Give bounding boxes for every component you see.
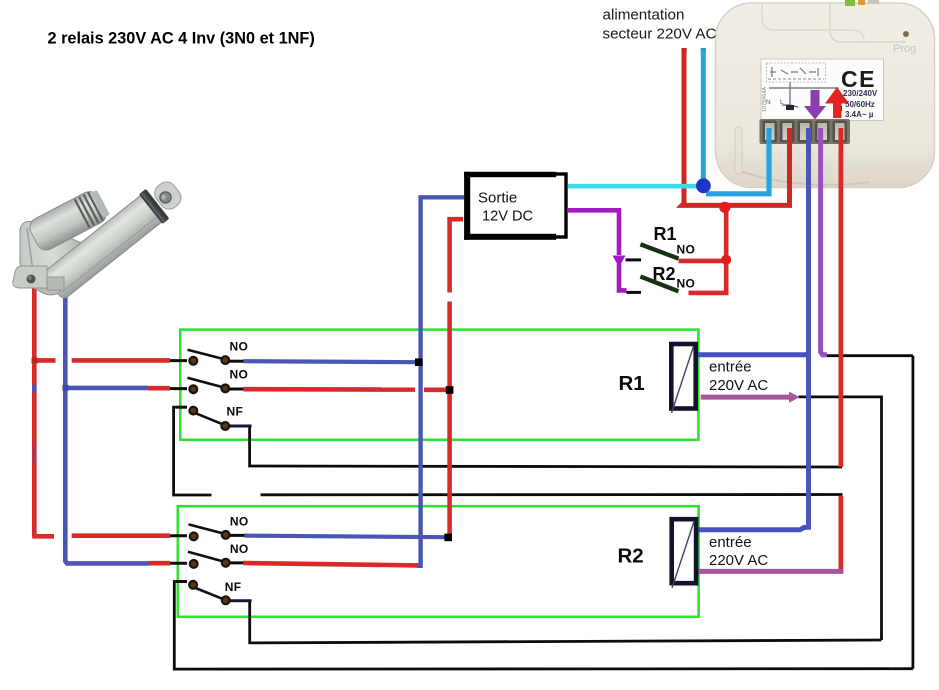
- wire black stub R1 NO1 contact: [229, 360, 244, 363]
- svg-text:N: N: [766, 99, 771, 106]
- node R1 NF common: [189, 407, 197, 415]
- wire black stub R1 NF common: [176, 406, 187, 409]
- node R1 common2: [189, 385, 197, 393]
- terminal block: [760, 119, 851, 144]
- wire Sortie purple output: [568, 210, 627, 290]
- wire red tail R2 row2: [149, 561, 171, 566]
- box Sortie 12V DC: [464, 172, 566, 240]
- arrowhead purple at R1 branch: [613, 256, 626, 268]
- actuator housing block: [20, 221, 88, 292]
- device side slot: [735, 127, 742, 174]
- blue paint mark on red vertical: [32, 385, 37, 393]
- wire R2 NF contact black loop bottom: [250, 601, 882, 643]
- junction red on red vertical R1 row1: [32, 358, 38, 364]
- device LED: [903, 31, 909, 37]
- wire actuator blue vertical feed: [65, 282, 148, 563]
- wire R2 entree blue: [698, 528, 806, 530]
- svg-text:alimentation: alimentation: [603, 7, 685, 24]
- wire black stub R2 NO2 contact: [229, 561, 246, 564]
- svg-text:3.4A~ µ: 3.4A~ µ: [845, 110, 874, 119]
- wire black stub R1 common 1: [168, 359, 187, 362]
- wire R1 NF contact black loop to right: [250, 426, 842, 467]
- actuator small foot right: [47, 277, 64, 290]
- actuator main tube: [42, 193, 165, 300]
- junction red dot main: [719, 202, 730, 213]
- junction square R1 NO1 to blue vertical: [415, 358, 423, 366]
- svg-text:Sortie: Sortie: [478, 190, 517, 207]
- svg-text:entrée: entrée: [709, 534, 752, 551]
- wire black stub R1 NO2 contact: [229, 388, 244, 391]
- wire R1 NF common black bracket: [174, 407, 212, 495]
- wire red R1 contact to branch: [679, 259, 727, 264]
- wire Sortie plus red down the middle upper: [450, 219, 463, 292]
- wire black stub R2 NF common: [176, 580, 187, 583]
- actuator dark collar: [139, 189, 170, 224]
- node R1 NO1 contact: [221, 356, 229, 364]
- svg-text:220V AC: 220V AC: [709, 552, 768, 569]
- svg-text:12V DC: 12V DC: [482, 209, 533, 225]
- PHOTO linear actuator left: [13, 174, 188, 302]
- label lower schematic: [769, 82, 838, 108]
- svg-text:Prog: Prog: [893, 43, 916, 55]
- node R1 common1: [189, 357, 197, 365]
- wire black stub R1 coil switch: [626, 258, 642, 261]
- wire R1 NF common black line right segment: [261, 493, 843, 496]
- lever R1 switch NF: [196, 413, 223, 424]
- wire R1 NO2 red output right part: [424, 387, 447, 392]
- wire R2 entree mauve: [698, 569, 843, 574]
- junction blue on blue vertical R1 row2: [63, 385, 69, 391]
- svg-text:entrée: entrée: [709, 359, 752, 376]
- wire red feed into R1 row1: [72, 358, 170, 363]
- terminal circles R1: [189, 356, 229, 604]
- node R2 NF contact: [222, 596, 230, 604]
- wire Sortie minus blue down the middle: [418, 197, 465, 566]
- wire red branch down to relay contacts: [689, 207, 727, 293]
- svg-text:220V AC: 220V AC: [709, 377, 768, 394]
- svg-text:NO: NO: [230, 542, 249, 556]
- wire R1 entree blue: [698, 352, 807, 357]
- junction square R2 NO1 to red vertical: [444, 534, 452, 542]
- relay coil U2 in box R2: [672, 519, 696, 588]
- wire terminal 5 red vertical upper: [839, 128, 844, 467]
- actuator mounting foot left: [13, 266, 47, 288]
- lever R2 switch NO2: [188, 552, 223, 562]
- svg-text:NO: NO: [677, 277, 696, 291]
- wire cap red alim: [682, 48, 687, 53]
- actuator base plate: [26, 274, 61, 295]
- wire navy stub R2 NF contact: [229, 599, 252, 602]
- wire right outer black vertical: [912, 356, 915, 669]
- node R2 common2: [190, 560, 198, 568]
- lever R1 switch NO1: [188, 350, 223, 359]
- node R1 NF contact: [221, 422, 229, 430]
- wire navy stub R1 NF contact: [229, 425, 252, 428]
- junction blue dot: [696, 178, 711, 193]
- lever R1 switch NO2: [188, 378, 223, 387]
- wire R2 NO2 red output: [243, 563, 419, 565]
- wire R1 entree black link down: [799, 397, 882, 640]
- junction red dot lower: [721, 255, 731, 265]
- wire blue feed into R1 row2: [65, 386, 147, 391]
- svg-text:R1: R1: [619, 372, 645, 395]
- svg-text:secteur 220V AC: secteur 220V AC: [603, 26, 717, 43]
- node R2 common1: [190, 533, 198, 541]
- label mini schematic top: [767, 63, 826, 82]
- wire R2 NF common black outer loop: [174, 582, 913, 670]
- wire red stub R1 row1 left: [32, 358, 55, 363]
- svg-text:NO: NO: [230, 340, 249, 354]
- svg-text:NF: NF: [227, 405, 244, 419]
- svg-text:L: L: [780, 99, 784, 106]
- wire terminal 4 purple vertical: [821, 128, 827, 355]
- lever R2 switch NO1: [189, 524, 224, 533]
- faint blue mark on red vertical lower: [32, 446, 37, 462]
- node R2 NO2 contact: [222, 559, 230, 567]
- arrowhead mauve R1 entree: [789, 392, 800, 403]
- wire black stub R2 NO1 contact: [229, 534, 246, 537]
- wire black stub R1 common 2: [168, 387, 187, 390]
- wire cyan Sortie to junction: [568, 184, 700, 189]
- svg-text:NF: NF: [225, 580, 242, 594]
- node R1 NO2 contact: [221, 385, 229, 393]
- svg-text:R2: R2: [653, 264, 676, 284]
- relay coil U1 in box R1: [671, 344, 695, 413]
- wire red tail R1 row2: [148, 386, 170, 391]
- wire R1 entree mauve with arrow: [701, 395, 791, 400]
- wire black stub R2 common 2: [168, 562, 187, 565]
- node R2 green enclosure box: [178, 506, 699, 617]
- device molded grooves: [830, 3, 906, 42]
- wire red feed into R2 row1: [72, 533, 170, 538]
- wire azure from terminal 1: [706, 128, 769, 194]
- svg-text:50/60Hz: 50/60Hz: [845, 100, 875, 109]
- wire black stub R2 common 1: [168, 534, 187, 537]
- wire R1 NO2 red output left part: [243, 387, 415, 392]
- svg-text:NO: NO: [677, 243, 696, 257]
- svg-text:2 relais 230V AC 4 Inv (3N0 et: 2 relais 230V AC 4 Inv (3N0 et 1NF): [48, 30, 315, 48]
- wire actuator red vertical feed: [32, 283, 54, 536]
- device connector bits at top: [845, 0, 855, 6]
- actuator motor cylinder: [26, 188, 109, 253]
- actuator rod clevis: [151, 178, 185, 213]
- wire terminal 5 red vertical lower: [839, 496, 844, 574]
- wire cap azure alim: [701, 48, 706, 53]
- wire alimentation azure vertical: [701, 49, 706, 186]
- junction square R1 NO2 to red vertical: [446, 386, 454, 394]
- wire Sortie plus red down the middle lower: [447, 302, 452, 538]
- svg-text:230/240V: 230/240V: [843, 89, 878, 98]
- lever R2 switch NF: [196, 588, 223, 599]
- wire alimentation red vertical: [682, 49, 790, 206]
- wire R2 NO1 blue output: [245, 536, 446, 538]
- svg-text:R1: R1: [654, 224, 677, 244]
- wire purple terminal to right black link: [826, 354, 913, 357]
- svg-text:R2: R2: [618, 544, 644, 567]
- PHOTO receiver device top right: [716, 0, 935, 188]
- device sticker label: [761, 59, 884, 121]
- purple down arrow on label: [804, 90, 826, 120]
- wire R1 NO1 blue output: [243, 361, 416, 362]
- node R2 NO1 contact: [222, 531, 230, 539]
- device body: [716, 3, 935, 188]
- lever R2 relay contact dark green: [640, 277, 678, 292]
- node R2 NF common: [189, 581, 197, 589]
- node R1 green enclosure box: [180, 330, 698, 440]
- lever R1 relay contact dark green: [640, 244, 678, 258]
- red up arrow on label: [825, 87, 849, 118]
- svg-text:NO: NO: [230, 515, 249, 529]
- svg-text:NO: NO: [230, 368, 249, 382]
- wire terminal 3 blue vertical: [806, 128, 811, 530]
- wire black stub R2 coil switch: [627, 291, 642, 294]
